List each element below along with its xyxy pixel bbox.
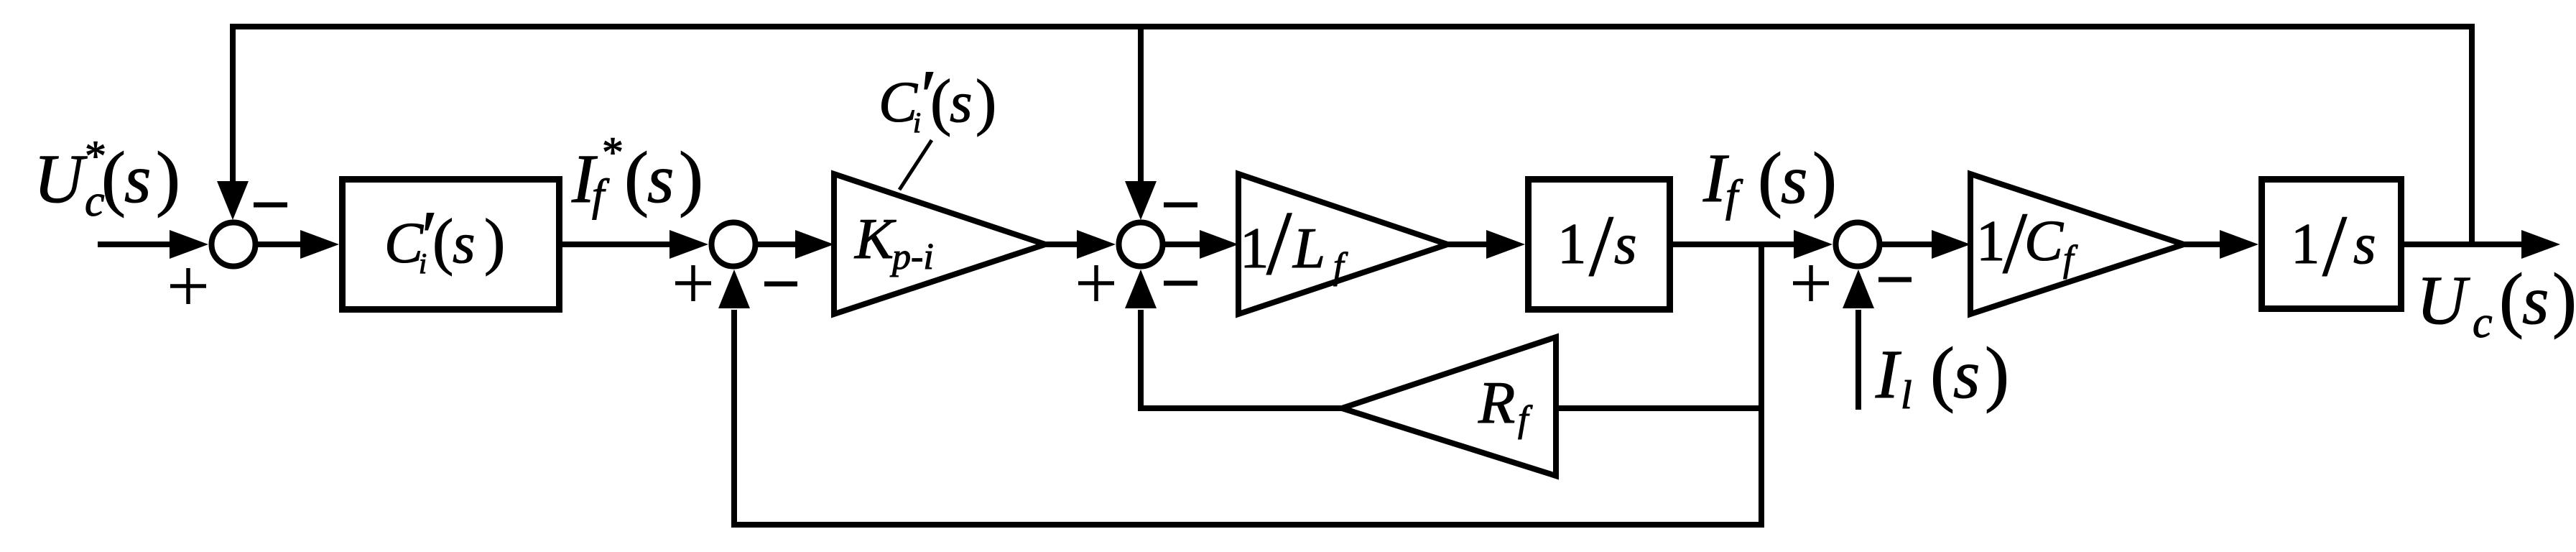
svg-text:C: C [384, 211, 424, 275]
block C_i'(s) [343, 180, 560, 310]
svg-text:): ) [2552, 259, 2576, 340]
arrow up into sum2 bottom [718, 270, 750, 308]
wire bottom outer loop [734, 244, 1761, 525]
gain triangle 1/Cf [1970, 174, 2184, 314]
label C_i'(s) pointer [879, 55, 996, 139]
arrow into block C [300, 230, 339, 259]
arrow down into sum1 top [217, 181, 249, 220]
arrow into sum3 [1077, 230, 1116, 259]
wire Il input [1855, 310, 1861, 410]
svg-text:): ) [1985, 333, 2009, 414]
svg-text:(: ( [2499, 259, 2524, 340]
svg-text:*: * [602, 129, 624, 176]
svg-text:l: l [1901, 373, 1912, 418]
gain triangle Rf (points left) [1342, 337, 1556, 476]
block 1/s second integrator [2262, 180, 2401, 309]
sign minus at sum4 bottom [1878, 277, 1912, 282]
arrow into sum2 [670, 230, 708, 259]
wire sum1 to block C [258, 241, 305, 247]
svg-text:p-i: p-i [889, 236, 934, 277]
svg-text:s: s [124, 140, 151, 217]
wire sum3 to gain 1/Lf [1165, 241, 1204, 247]
sign plus at sum2 [675, 265, 711, 301]
svg-text:s: s [950, 70, 973, 134]
arrow down into sum3 top [1125, 181, 1157, 220]
svg-text:C: C [2024, 208, 2064, 273]
wire gain K to sum3 [1045, 241, 1081, 247]
svg-text:C: C [879, 70, 918, 134]
svg-text:s: s [647, 140, 674, 217]
wire gain 1/Cf to block 1/s-2 [2184, 241, 2224, 247]
wire output [2404, 241, 2526, 247]
label U_c*(s) input [34, 132, 180, 226]
svg-text:K: K [854, 206, 896, 271]
gain triangle 1/Lf [1238, 174, 1447, 314]
sign plus at sum1 [170, 268, 206, 304]
arrow into sum1 [170, 230, 208, 259]
wire block 1/s to sum4 [1673, 241, 1798, 247]
label 1/s in second integrator [2291, 198, 2376, 295]
svg-text:): ) [484, 207, 505, 277]
svg-text:s: s [2522, 262, 2549, 339]
sign minus at sum2 bottom [764, 282, 797, 287]
label Rf in gain [1478, 369, 1533, 440]
svg-text:(: ( [1930, 333, 1955, 414]
svg-text:(: ( [624, 137, 649, 218]
svg-text:1: 1 [1557, 211, 1587, 276]
wire Rf input [1556, 405, 1761, 411]
svg-text:(: ( [101, 137, 126, 218]
label K_p-i in gain [854, 206, 934, 277]
sign minus at sum1 top [254, 203, 287, 208]
svg-text:/: / [2322, 198, 2347, 295]
svg-text:(: ( [930, 68, 951, 137]
arrow into gain 1/Lf [1200, 230, 1238, 259]
svg-text:s: s [2353, 211, 2376, 276]
arrow output [2521, 230, 2560, 259]
svg-text:/: / [1589, 198, 1613, 295]
svg-text:/: / [2003, 195, 2027, 292]
svg-text:s: s [1781, 141, 1807, 218]
label 1/Lf in gain [1240, 193, 1348, 294]
svg-text:1: 1 [1976, 208, 2006, 273]
wire gain 1/Lf to block 1/s [1447, 241, 1491, 247]
wire Rf output to sum3 [1141, 310, 1342, 408]
svg-text:R: R [1478, 369, 1515, 436]
sign minus at sum3 bottom [1164, 281, 1197, 286]
pointer line from label C_i'(s) to gain K [899, 140, 932, 190]
wire sum4 to gain 1/Cf [1882, 241, 1936, 247]
svg-text:L: L [1292, 216, 1325, 280]
svg-text:(: ( [432, 207, 453, 277]
svg-text:c: c [2473, 298, 2493, 347]
svg-text:(: ( [1758, 138, 1782, 219]
sign minus at sum3 top [1164, 203, 1197, 208]
label U_c(s) output [2417, 259, 2576, 347]
summing junction 2 [712, 223, 756, 267]
svg-text:): ) [156, 137, 180, 218]
arrow up into sum4 bottom [1843, 270, 1874, 308]
svg-text:): ) [679, 137, 703, 218]
arrow into block 1/s [1486, 230, 1525, 259]
svg-text:U: U [2417, 262, 2470, 339]
arrow into block 1/s-2 [2220, 230, 2258, 259]
wire top feedback loop [233, 27, 2472, 247]
svg-text:s: s [1953, 336, 1980, 413]
block 1/s first integrator [1529, 180, 1670, 310]
arrow up into sum3 bottom [1125, 270, 1157, 308]
arrow into sum4 [1794, 230, 1833, 259]
svg-text:I: I [1875, 336, 1901, 413]
svg-text:1: 1 [2291, 211, 2320, 276]
wire block C to sum2 [562, 241, 674, 247]
wire top drop to sum3 [1138, 27, 1144, 187]
svg-text:): ) [1812, 138, 1837, 219]
summing junction 1 [212, 223, 256, 267]
summing junction 4 [1836, 223, 1880, 267]
svg-text:U: U [34, 140, 88, 217]
label 1/Cf in gain [1976, 195, 2078, 292]
gain triangle K_p-i [834, 174, 1045, 314]
svg-text:i: i [913, 106, 921, 139]
arrow into gain K [795, 230, 834, 259]
label C_i'(s) in block [384, 196, 505, 280]
summing junction 3 [1119, 223, 1163, 267]
wire sum2 to gain K [758, 241, 800, 247]
svg-text:1: 1 [1240, 216, 1269, 280]
sign plus at sum3 [1078, 265, 1114, 301]
svg-text:): ) [976, 68, 996, 137]
label Il(s) disturbance input [1875, 333, 2009, 418]
label 1/s in first integrator [1557, 198, 1637, 295]
svg-text:s: s [453, 211, 476, 275]
arrow into gain 1/Cf [1932, 230, 1970, 259]
sign plus at sum4 [1793, 265, 1829, 301]
svg-text:s: s [1614, 211, 1637, 276]
svg-text:/: / [1266, 193, 1292, 294]
label I_f(s) output of integrator [1702, 138, 1837, 221]
wire input [98, 241, 174, 247]
label I_f*(s) [571, 129, 703, 220]
arrowheads [170, 181, 2560, 308]
